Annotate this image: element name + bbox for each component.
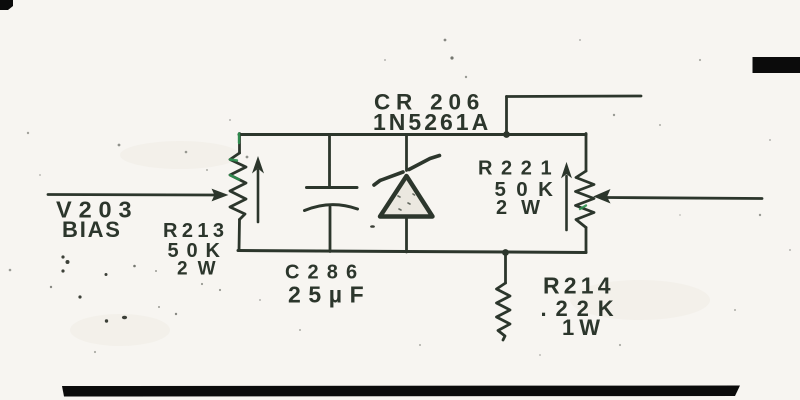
wire: CR206 top branch horizontal [507, 95, 642, 98]
wire: diode bottom lead [405, 217, 408, 252]
svg-text:C286: C286 [285, 262, 365, 284]
scan-edge black bar top-right [753, 57, 800, 73]
capacitor C286 curved bottom plate [305, 205, 358, 211]
potentiometer R213 zigzag [230, 153, 246, 220]
svg-text:R214: R214 [543, 273, 615, 299]
svg-text:R213: R213 [163, 220, 228, 242]
wire: right vertical upper segment [585, 134, 588, 172]
potentiometer R213 wiper up-arrow [253, 158, 263, 223]
green ink accents [230, 134, 586, 210]
wire: left vertical upper segment [238, 134, 241, 154]
svg-text:2W: 2W [496, 197, 554, 219]
arrowhead on V203 input wire [213, 190, 228, 201]
svg-text:1N5261A: 1N5261A [373, 109, 491, 135]
wire: bottom bus [238, 251, 586, 253]
junction node: top bus / CR206 branch [503, 131, 510, 138]
wire: capacitor top lead [328, 135, 331, 187]
capacitor C286 top plate [307, 186, 358, 189]
potentiometer R221 zigzag [576, 171, 595, 228]
wire: left input to V203 BIAS [48, 193, 214, 196]
wire: CR206 top branch vertical [505, 97, 508, 135]
arrowhead on R221 wiper feed [595, 190, 610, 203]
svg-text:R221: R221 [478, 158, 560, 180]
wire: top bus [239, 133, 586, 136]
svg-text:BIAS: BIAS [62, 217, 122, 242]
zener diode CR206 symbol [374, 156, 440, 217]
svg-text:25µF: 25µF [288, 282, 371, 308]
wire: R214 top lead [504, 253, 507, 284]
wire: right vertical lower segment [585, 228, 588, 253]
potentiometer R221 wiper up-arrow [562, 164, 571, 231]
scan noise specks [9, 39, 791, 356]
scan-edge black mark top-left [0, 0, 13, 10]
resistor R214 zigzag [497, 283, 511, 340]
wire: left vertical lower segment [238, 220, 241, 251]
wire: diode top lead [405, 135, 408, 171]
paper mottle [70, 141, 710, 346]
svg-text:1W: 1W [562, 315, 605, 340]
wire: R221 wiper feed from right edge [607, 198, 762, 199]
svg-text:2W: 2W [177, 259, 226, 280]
junction node: bottom bus / R214 branch [502, 249, 509, 256]
wire: capacitor bottom lead [329, 207, 332, 252]
scan-edge black bar bottom [62, 386, 740, 397]
